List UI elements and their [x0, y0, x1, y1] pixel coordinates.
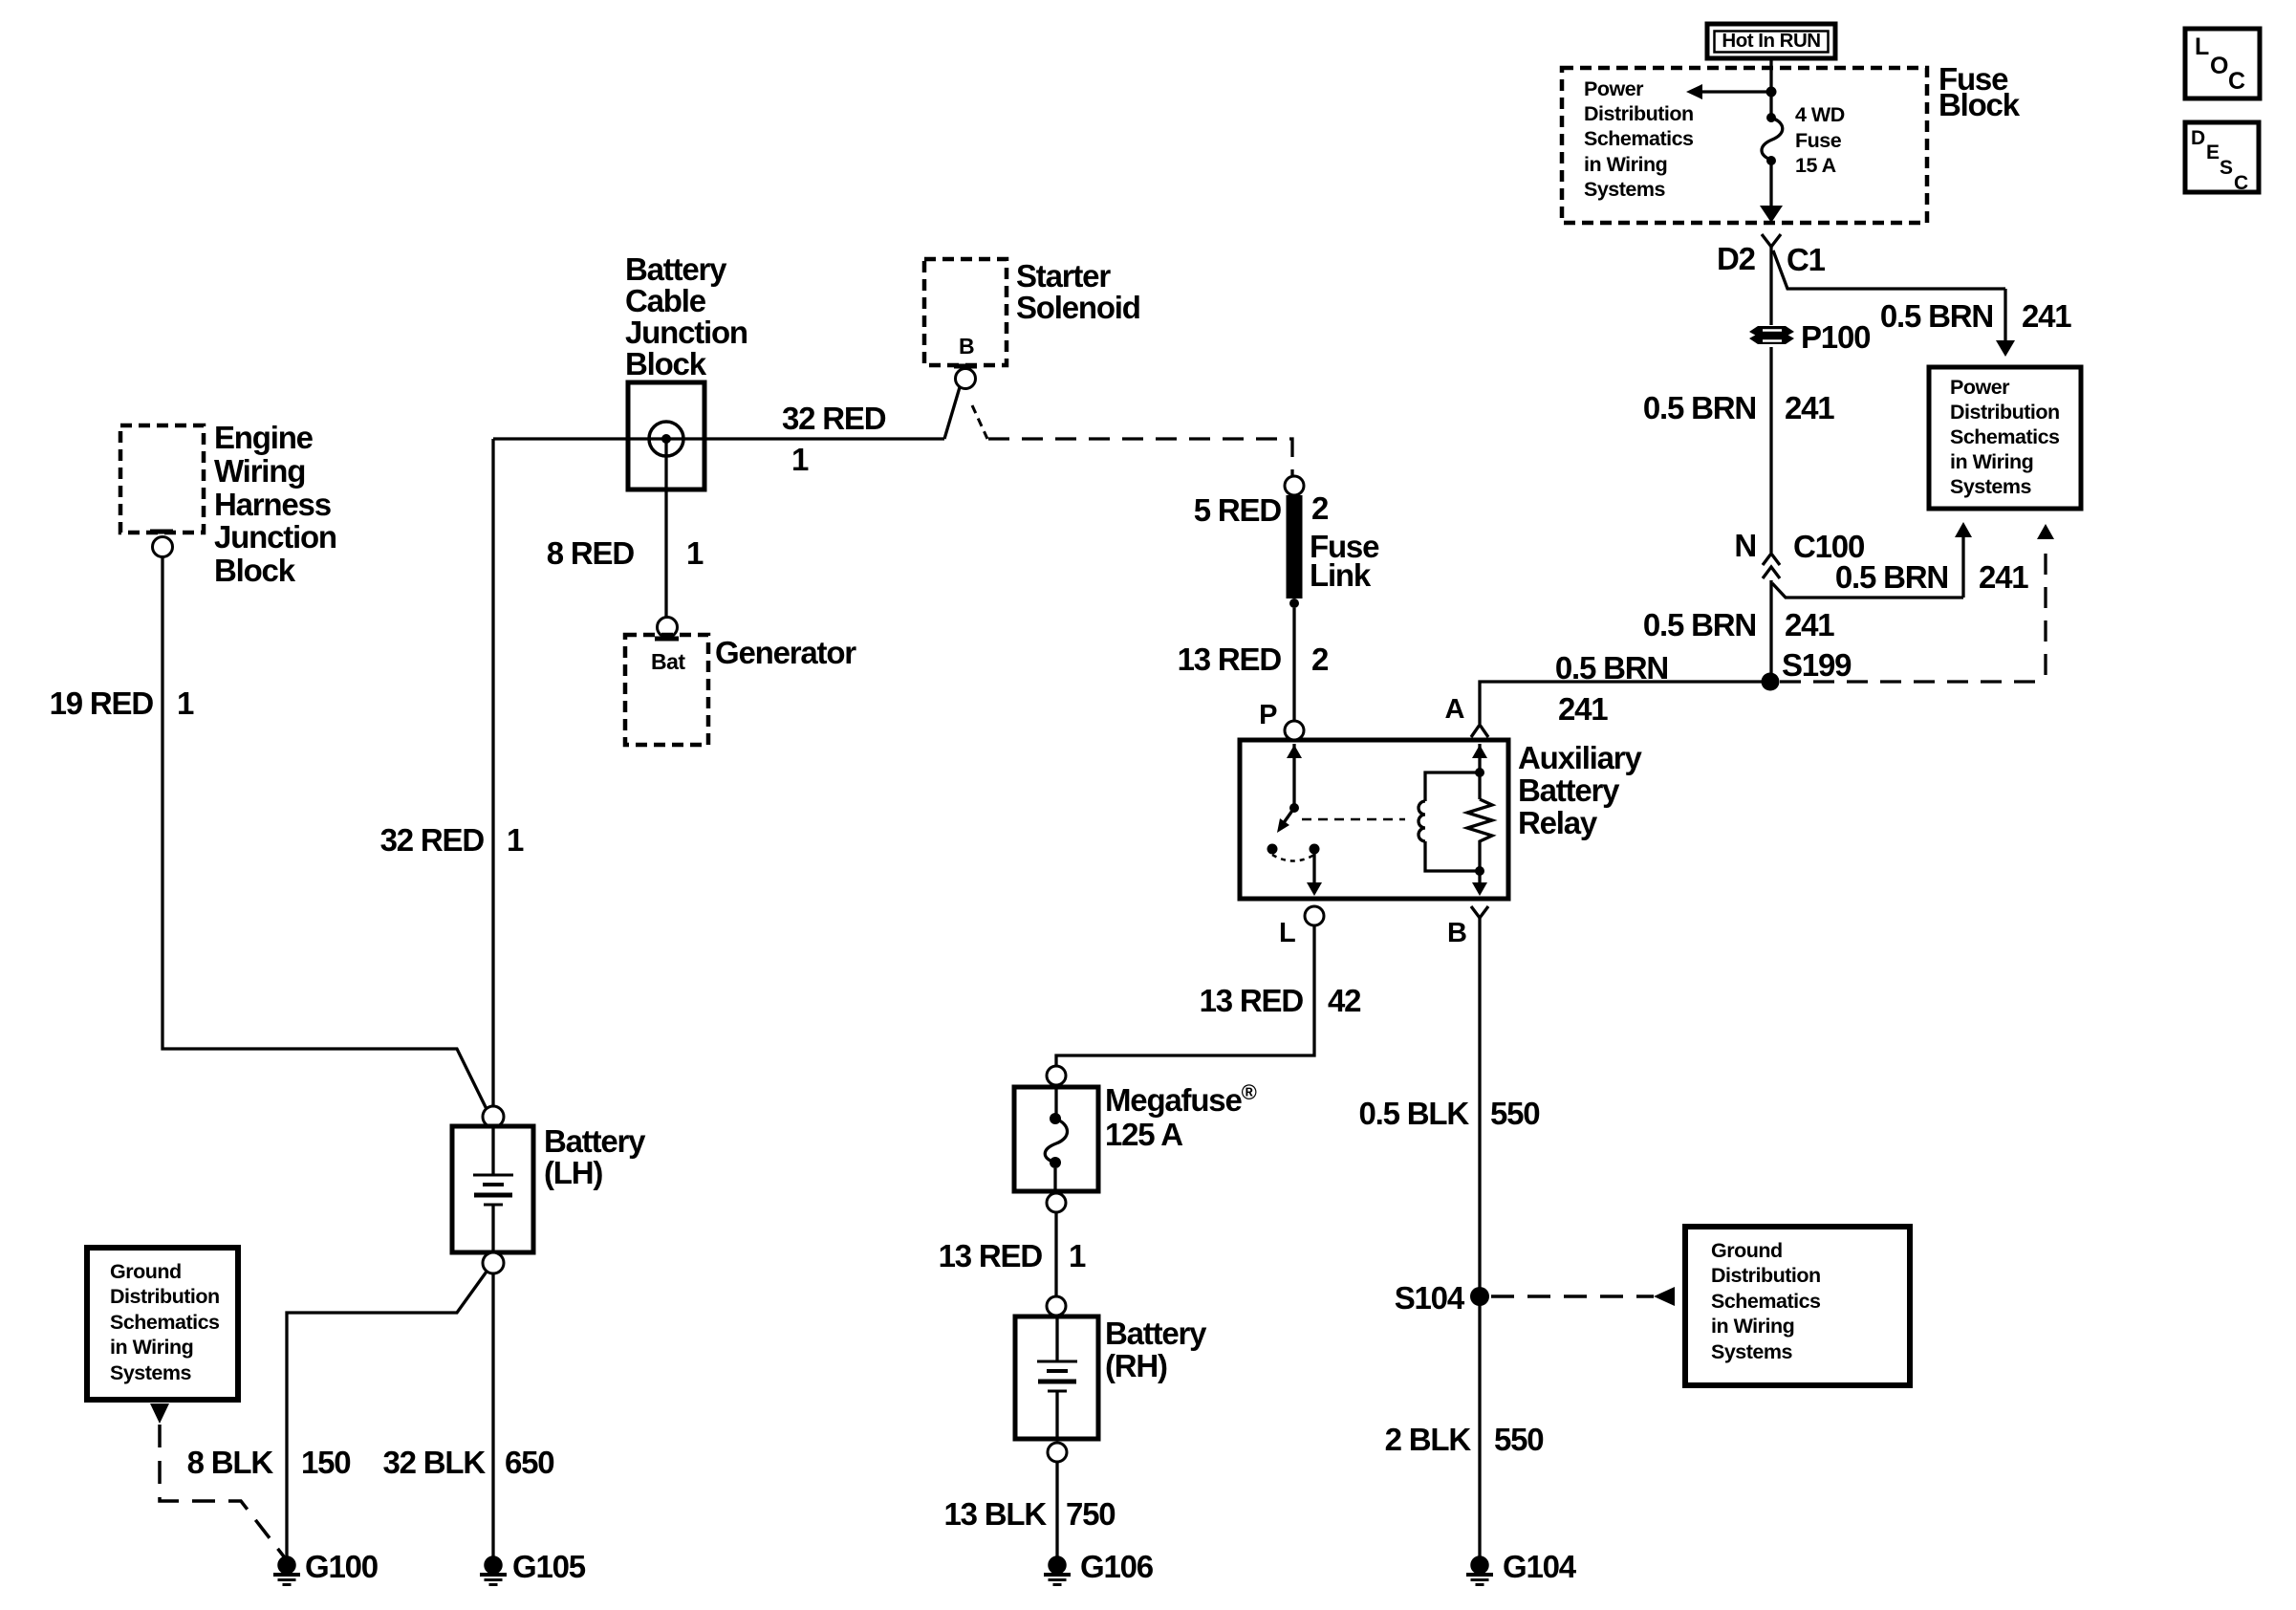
svg-text:Battery: Battery: [1518, 772, 1620, 808]
solenoid pin stub: [954, 364, 977, 369]
ground G105: [480, 1556, 507, 1584]
svg-text:P100: P100: [1801, 319, 1870, 355]
svg-text:0.5 BLK: 0.5 BLK: [1359, 1096, 1470, 1131]
fuse block dashed box: [1562, 68, 1927, 223]
connector D2/C1 chevron: [1762, 234, 1781, 247]
svg-text:Harness: Harness: [214, 487, 331, 522]
solenoid pin circle: [956, 369, 976, 389]
svg-text:Schematics: Schematics: [1584, 127, 1694, 150]
relay internal L arm with down arrow: [1307, 854, 1322, 896]
svg-text:0.5 BRN: 0.5 BRN: [1835, 559, 1948, 595]
svg-text:Battery: Battery: [1105, 1316, 1207, 1351]
wire D2 to P100: [1769, 247, 1772, 325]
svg-text:Hot In RUN: Hot In RUN: [1722, 30, 1820, 52]
generator pin stub: [655, 637, 679, 642]
svg-text:241: 241: [1558, 691, 1608, 727]
svg-text:Generator: Generator: [715, 635, 856, 670]
pin stub: [150, 530, 173, 534]
splice S104: [1470, 1287, 1489, 1306]
branch wire to power distribution box (top): [1773, 250, 2015, 357]
svg-text:550: 550: [1494, 1422, 1543, 1457]
svg-text:C: C: [2228, 68, 2245, 95]
generator pin circle: [658, 618, 678, 638]
megafuse element: [1045, 1087, 1067, 1191]
label 8 RED | 1: [547, 535, 704, 571]
4WD fuse label: [1795, 103, 1845, 177]
power distribution schematics box (solid): [1929, 367, 2081, 509]
svg-text:13 RED: 13 RED: [939, 1238, 1043, 1273]
ground distribution box (right): [1685, 1227, 1910, 1385]
battery RH box: [1015, 1316, 1098, 1439]
label 13 RED | 42: [1200, 983, 1362, 1018]
svg-text:Auxiliary: Auxiliary: [1518, 740, 1642, 775]
dashed wire S104 to ground dist box: [1491, 1287, 1675, 1306]
8 BLK wire to G100: [287, 1272, 487, 1556]
svg-text:Systems: Systems: [110, 1361, 191, 1384]
svg-text:D2: D2: [1717, 241, 1756, 276]
svg-text:B: B: [1447, 918, 1466, 948]
svg-text:241: 241: [2022, 298, 2071, 334]
LOC box: [2185, 29, 2260, 98]
svg-text:E: E: [2206, 141, 2220, 163]
svg-text:650: 650: [505, 1445, 553, 1480]
pin circle: [153, 537, 173, 557]
svg-text:Battery: Battery: [544, 1123, 646, 1159]
ground G106: [1044, 1556, 1071, 1584]
fuse link element: [1287, 495, 1303, 598]
coil: [1419, 772, 1480, 871]
label 32 RED | 1 (vertical): [380, 822, 524, 858]
svg-text:in Wiring: in Wiring: [110, 1336, 193, 1359]
svg-text:32 RED: 32 RED: [782, 401, 886, 436]
svg-text:1: 1: [177, 685, 194, 721]
svg-text:Distribution: Distribution: [1950, 401, 2060, 424]
relay internal P arm with up arrow: [1287, 744, 1302, 813]
wire battery RH to G106: [1055, 1462, 1058, 1556]
32 BLK wire to G105: [491, 1273, 494, 1556]
switch blade arrow: [1277, 808, 1294, 833]
dashed actuation line: [1302, 818, 1405, 821]
svg-text:13 BLK: 13 BLK: [944, 1496, 1048, 1532]
svg-text:L: L: [2195, 33, 2209, 60]
generator dashed box: [625, 635, 708, 745]
svg-text:241: 241: [1785, 607, 1834, 642]
wire megafuse to battery RH: [1054, 1212, 1057, 1295]
label Fuse Link: [1310, 529, 1379, 593]
dashed wire to G100: [160, 1425, 287, 1560]
svg-text:Relay: Relay: [1518, 805, 1598, 840]
resistor: [1467, 744, 1492, 896]
label 0.5 BRN | 241 (above C100): [1643, 390, 1834, 425]
battery LH bottom circle: [483, 1252, 504, 1273]
svg-text:Systems: Systems: [1950, 475, 2031, 498]
svg-text:2: 2: [1311, 642, 1329, 677]
label Engine Wiring Harness Junction Block: [214, 420, 336, 588]
power distribution note (inside fuse block): [1584, 77, 1694, 201]
svg-text:750: 750: [1066, 1496, 1115, 1532]
svg-text:G104: G104: [1503, 1549, 1577, 1584]
fuse link top circle: [1285, 476, 1304, 495]
svg-text:C: C: [2234, 172, 2248, 194]
label Auxiliary Battery Relay: [1518, 740, 1642, 840]
svg-text:0.5 BRN: 0.5 BRN: [1880, 298, 1993, 334]
svg-text:1: 1: [507, 822, 524, 858]
svg-text:13 RED: 13 RED: [1200, 983, 1304, 1018]
svg-text:in Wiring: in Wiring: [1711, 1315, 1794, 1338]
label Battery (LH): [544, 1123, 646, 1190]
svg-text:in Wiring: in Wiring: [1950, 450, 2033, 473]
dashed wire S199 to power dist box: [1780, 524, 2054, 682]
svg-text:Block: Block: [214, 553, 296, 588]
svg-text:S199: S199: [1782, 647, 1852, 683]
wire with down arrow to fuse block edge: [1760, 161, 1783, 223]
svg-text:S: S: [2220, 157, 2233, 179]
node below fuse link: [1289, 598, 1299, 608]
svg-text:550: 550: [1490, 1096, 1539, 1131]
svg-text:A: A: [1445, 694, 1465, 725]
label Megafuse 125 A: [1105, 1080, 1257, 1153]
label 19 RED | 1: [50, 685, 194, 721]
label 32 BLK | 650: [383, 1445, 554, 1480]
connector A chevron: [1471, 725, 1488, 737]
battery LH top circle: [483, 1106, 504, 1127]
connector B chevron: [1471, 906, 1488, 918]
dashed wire from solenoid to fuse link: [988, 439, 1292, 475]
svg-text:Block: Block: [1939, 87, 2021, 122]
svg-text:5 RED: 5 RED: [1194, 492, 1282, 528]
svg-text:8 RED: 8 RED: [547, 535, 635, 571]
wire from Hot In RUN into fuse block: [1769, 58, 1772, 114]
label 8 BLK | 150: [187, 1445, 351, 1480]
Hot In RUN box: [1707, 24, 1835, 58]
arrow below ground dist box: [150, 1403, 169, 1424]
svg-text:241: 241: [1785, 390, 1834, 425]
svg-text:Schematics: Schematics: [1950, 425, 2060, 448]
wire junction block to generator: [664, 439, 667, 618]
svg-text:Schematics: Schematics: [1711, 1290, 1821, 1313]
svg-text:G106: G106: [1080, 1549, 1154, 1584]
wire L down and over to megafuse: [1056, 925, 1314, 1066]
svg-text:32 RED: 32 RED: [380, 822, 485, 858]
svg-text:Bat: Bat: [651, 649, 685, 674]
svg-text:N: N: [1734, 528, 1756, 563]
node (junction dot): [1766, 87, 1777, 98]
battery RH top circle: [1047, 1296, 1066, 1316]
switch dashed blade: [972, 405, 987, 439]
svg-text:15 A: 15 A: [1795, 154, 1836, 177]
svg-text:Cable: Cable: [625, 283, 706, 318]
svg-text:241: 241: [1979, 559, 2028, 595]
pin P circle: [1285, 721, 1304, 740]
svg-text:Junction: Junction: [625, 315, 747, 350]
svg-text:B: B: [959, 334, 974, 359]
junction block terminal circle: [649, 422, 683, 456]
main horizontal wire: [493, 437, 944, 440]
fuse block label: [1939, 61, 2021, 122]
svg-text:S104: S104: [1395, 1280, 1465, 1316]
label 5 RED | 2: [1194, 490, 1329, 528]
svg-text:Starter: Starter: [1016, 258, 1111, 294]
svg-text:G100: G100: [305, 1549, 378, 1584]
svg-text:42: 42: [1328, 983, 1361, 1018]
svg-text:(LH): (LH): [544, 1155, 602, 1190]
svg-text:Megafuse®: Megafuse®: [1105, 1080, 1257, 1119]
wire B to G104: [1478, 918, 1481, 1556]
connector C100 chevrons: [1763, 554, 1780, 578]
megafuse box: [1014, 1087, 1098, 1191]
svg-text:D: D: [2191, 127, 2205, 149]
svg-text:in Wiring: in Wiring: [1584, 153, 1667, 176]
svg-text:Systems: Systems: [1584, 178, 1665, 201]
svg-text:Fuse: Fuse: [1795, 129, 1842, 152]
svg-text:13 RED: 13 RED: [1178, 642, 1282, 677]
svg-text:Distribution: Distribution: [110, 1285, 220, 1308]
svg-text:Power: Power: [1950, 376, 2010, 399]
svg-text:Schematics: Schematics: [110, 1311, 220, 1334]
megafuse bottom circle: [1047, 1193, 1066, 1212]
svg-text:1: 1: [791, 442, 809, 477]
svg-text:Junction: Junction: [214, 519, 336, 555]
svg-text:O: O: [2210, 53, 2228, 79]
svg-text:Battery: Battery: [625, 251, 727, 287]
svg-text:0.5 BRN: 0.5 BRN: [1643, 390, 1756, 425]
label 13 BLK | 750: [944, 1496, 1116, 1532]
svg-text:0.5 BRN: 0.5 BRN: [1643, 607, 1756, 642]
splice S199: [1762, 673, 1780, 691]
branch wire below C100 to power dist box: [1772, 522, 1972, 598]
svg-text:125 A: 125 A: [1105, 1117, 1182, 1152]
label Battery Cable Junction Block: [625, 251, 747, 381]
svg-text:Block: Block: [625, 346, 707, 381]
wire S199 to relay A: [1480, 682, 1762, 724]
svg-text:32 BLK: 32 BLK: [383, 1445, 487, 1480]
arrow to power distribution note: [1686, 84, 1771, 99]
battery LH box: [452, 1126, 533, 1252]
32 RED vertical wire: [491, 439, 494, 1106]
ground G104: [1466, 1556, 1493, 1584]
label Battery (RH): [1105, 1316, 1207, 1383]
label 13 RED | 2: [1178, 642, 1329, 677]
megafuse top circle: [1047, 1066, 1066, 1085]
label Starter Solenoid: [1016, 258, 1140, 325]
svg-text:8 BLK: 8 BLK: [187, 1445, 274, 1480]
ground G100: [273, 1556, 300, 1584]
label 0.5 BLK | 550: [1359, 1096, 1540, 1131]
pin L circle: [1305, 906, 1324, 925]
svg-text:19 RED: 19 RED: [50, 685, 154, 721]
DESC box: [2185, 122, 2259, 194]
label 2 BLK | 550: [1385, 1422, 1544, 1457]
svg-text:Wiring: Wiring: [214, 453, 305, 489]
battery cable junction block box: [628, 382, 704, 490]
battery LH symbol: [473, 1126, 513, 1252]
19 RED wire: [162, 557, 487, 1109]
dashed contact arc: [1272, 855, 1314, 861]
wire C100 to S199: [1769, 580, 1772, 677]
svg-text:L: L: [1279, 918, 1295, 948]
svg-text:C1: C1: [1787, 242, 1826, 277]
svg-text:Distribution: Distribution: [1584, 102, 1694, 125]
starter solenoid dashed box: [924, 259, 1007, 365]
svg-text:1: 1: [686, 535, 704, 571]
svg-text:4 WD: 4 WD: [1795, 103, 1845, 126]
svg-text:Systems: Systems: [1711, 1340, 1792, 1363]
battery RH symbol: [1037, 1316, 1077, 1439]
svg-text:Distribution: Distribution: [1711, 1264, 1821, 1287]
svg-text:Power: Power: [1584, 77, 1644, 100]
contact dots: [1267, 844, 1278, 855]
wire fuse link to P: [1292, 608, 1295, 720]
svg-text:Ground: Ground: [1711, 1239, 1783, 1262]
label 13 RED | 1: [939, 1238, 1086, 1273]
grommet P100: [1749, 326, 1794, 344]
svg-text:Link: Link: [1310, 557, 1372, 593]
wire P100 to C100: [1769, 347, 1772, 553]
svg-text:Engine: Engine: [214, 420, 314, 455]
svg-text:Ground: Ground: [110, 1260, 182, 1283]
battery RH bottom circle: [1048, 1443, 1067, 1462]
4WD fuse 15A symbol: [1762, 113, 1783, 165]
svg-text:1: 1: [1069, 1238, 1086, 1273]
svg-text:2 BLK: 2 BLK: [1385, 1422, 1472, 1457]
svg-text:Solenoid: Solenoid: [1016, 290, 1140, 325]
label 0.5 BRN | 241 (above S199): [1643, 607, 1834, 642]
switch solid leg: [944, 387, 960, 439]
engine wiring harness junction block dashed box: [120, 425, 204, 533]
svg-text:0.5 BRN: 0.5 BRN: [1555, 650, 1668, 685]
svg-text:G105: G105: [512, 1549, 586, 1584]
svg-text:2: 2: [1311, 490, 1329, 526]
relay box: [1240, 740, 1508, 899]
label 32 RED / 1 (horizontal wire): [782, 401, 886, 477]
svg-text:(RH): (RH): [1105, 1348, 1167, 1383]
svg-text:P: P: [1259, 700, 1277, 730]
svg-text:150: 150: [301, 1445, 350, 1480]
